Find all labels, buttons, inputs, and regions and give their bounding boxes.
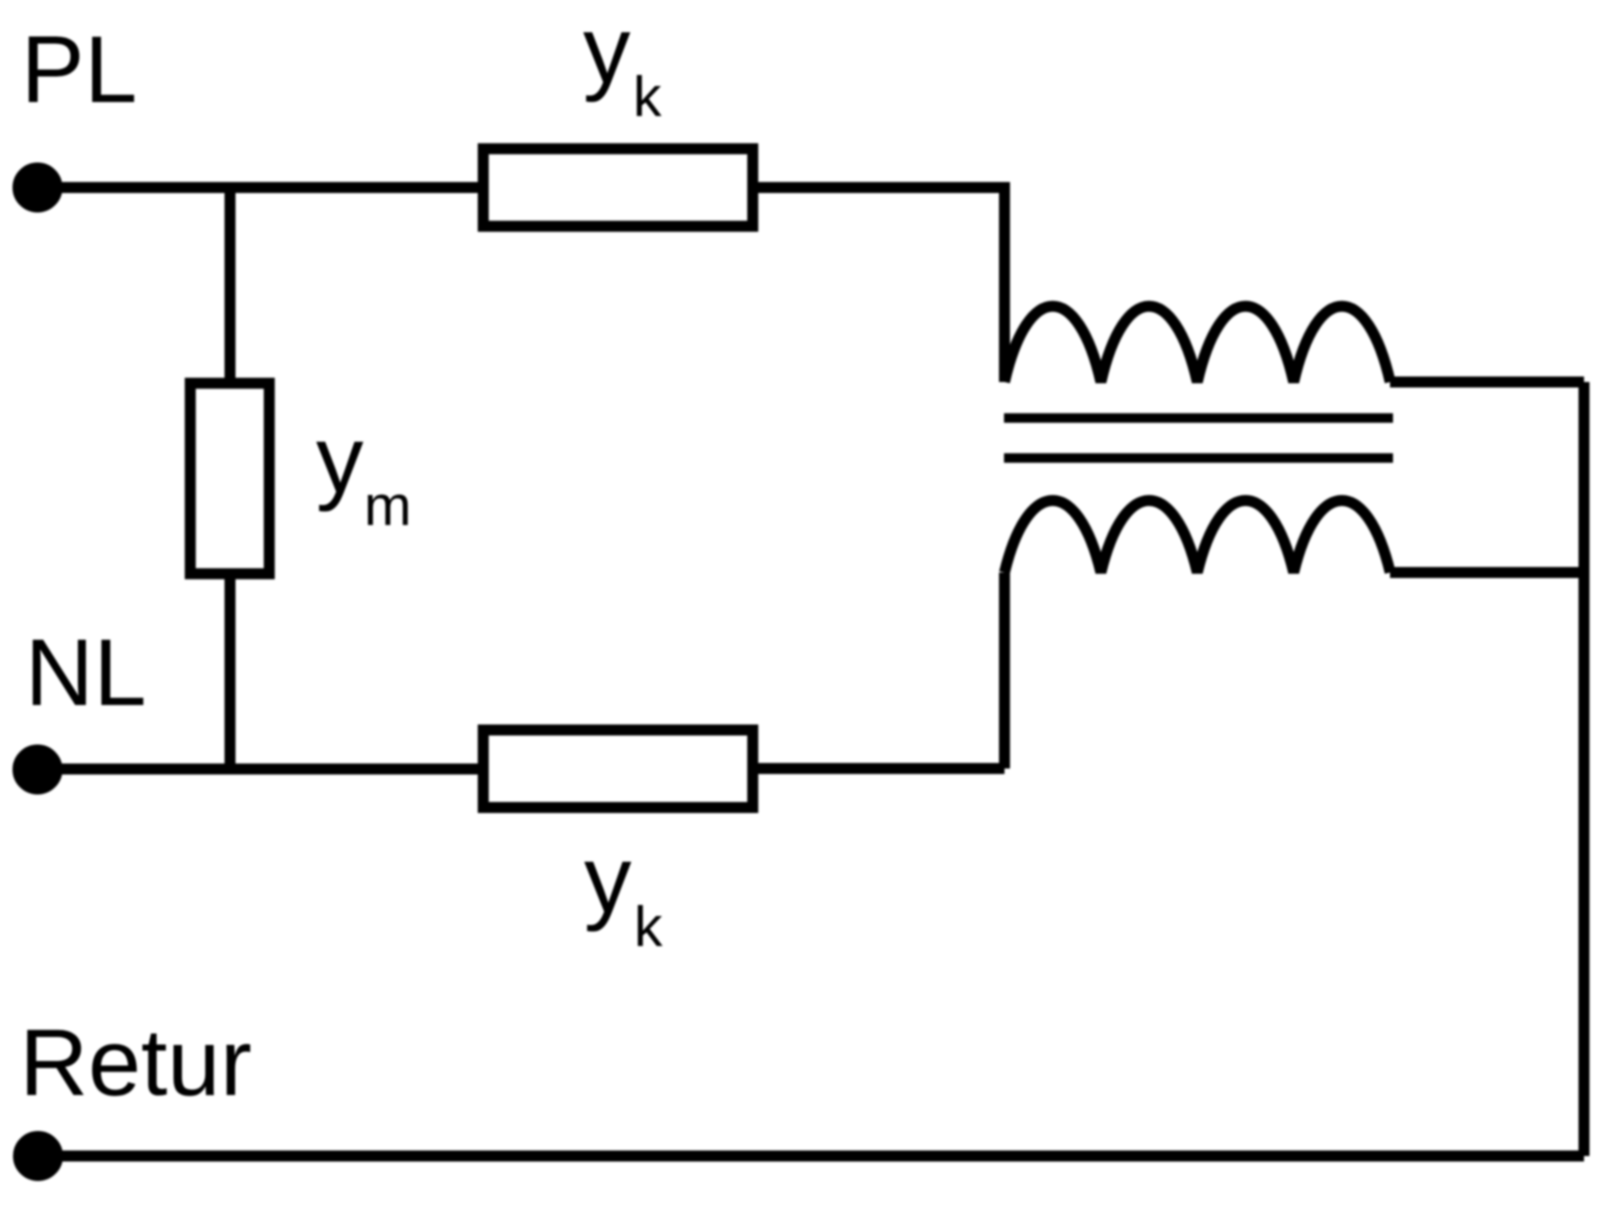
wire NL to bottom resistor (38, 764, 479, 775)
terminal Retur dot (19, 1137, 58, 1176)
wire top resistor to transformer (758, 188, 1005, 383)
svg-text:k: k (634, 895, 663, 959)
wire PL to top resistor (38, 182, 479, 193)
wire Retur rail (38, 1151, 1584, 1162)
wire primary to right bus (1390, 377, 1584, 388)
transformer primary winding L1 (1005, 306, 1391, 382)
node junction top rail / shunt branch (225, 188, 236, 379)
resistor yk bottom box (483, 730, 753, 808)
svg-text:k: k (633, 65, 662, 129)
wire secondary to right bus (1390, 567, 1584, 578)
terminal NL dot (18, 750, 57, 789)
transformer core line 2 (1004, 453, 1393, 463)
transformer core line 1 (1004, 413, 1393, 423)
wire transformer to bottom resistor (758, 763, 1005, 774)
right bus vertical wire (1579, 382, 1590, 1156)
resistor ym box (190, 383, 269, 574)
resistor yk top box (483, 149, 753, 227)
terminal PL dot (18, 168, 57, 207)
svg-text:Retur: Retur (20, 1010, 252, 1116)
svg-text:m: m (364, 474, 411, 538)
svg-text:y: y (316, 407, 364, 513)
transformer secondary winding L2 (1005, 501, 1391, 573)
svg-text:y: y (584, 827, 632, 933)
wire secondary left down (999, 573, 1010, 769)
svg-text:NL: NL (25, 620, 146, 726)
wire ym to NL rail (225, 579, 236, 768)
svg-text:PL: PL (21, 17, 137, 123)
svg-text:y: y (583, 0, 631, 104)
